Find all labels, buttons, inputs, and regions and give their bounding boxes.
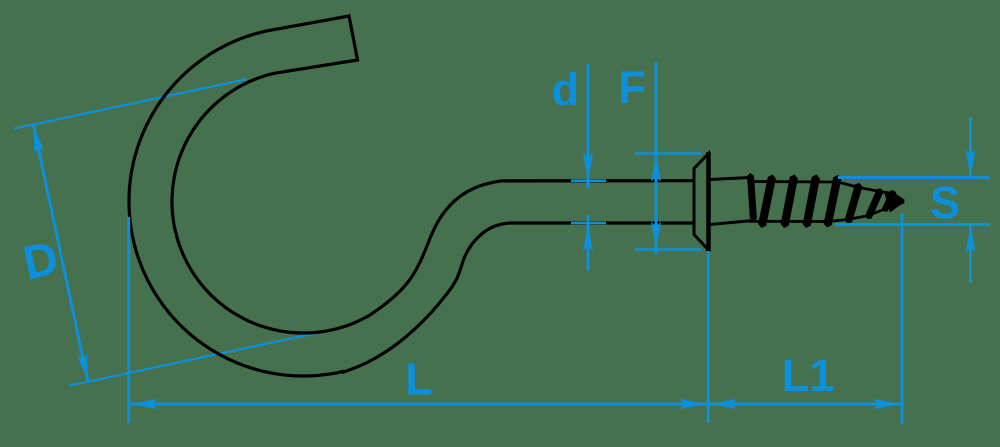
svg-text:F: F	[618, 62, 646, 113]
svg-text:L1: L1	[782, 350, 835, 401]
svg-text:d: d	[552, 64, 580, 115]
svg-text:S: S	[930, 177, 960, 228]
svg-text:L: L	[405, 354, 433, 405]
svg-text:D: D	[18, 231, 62, 290]
